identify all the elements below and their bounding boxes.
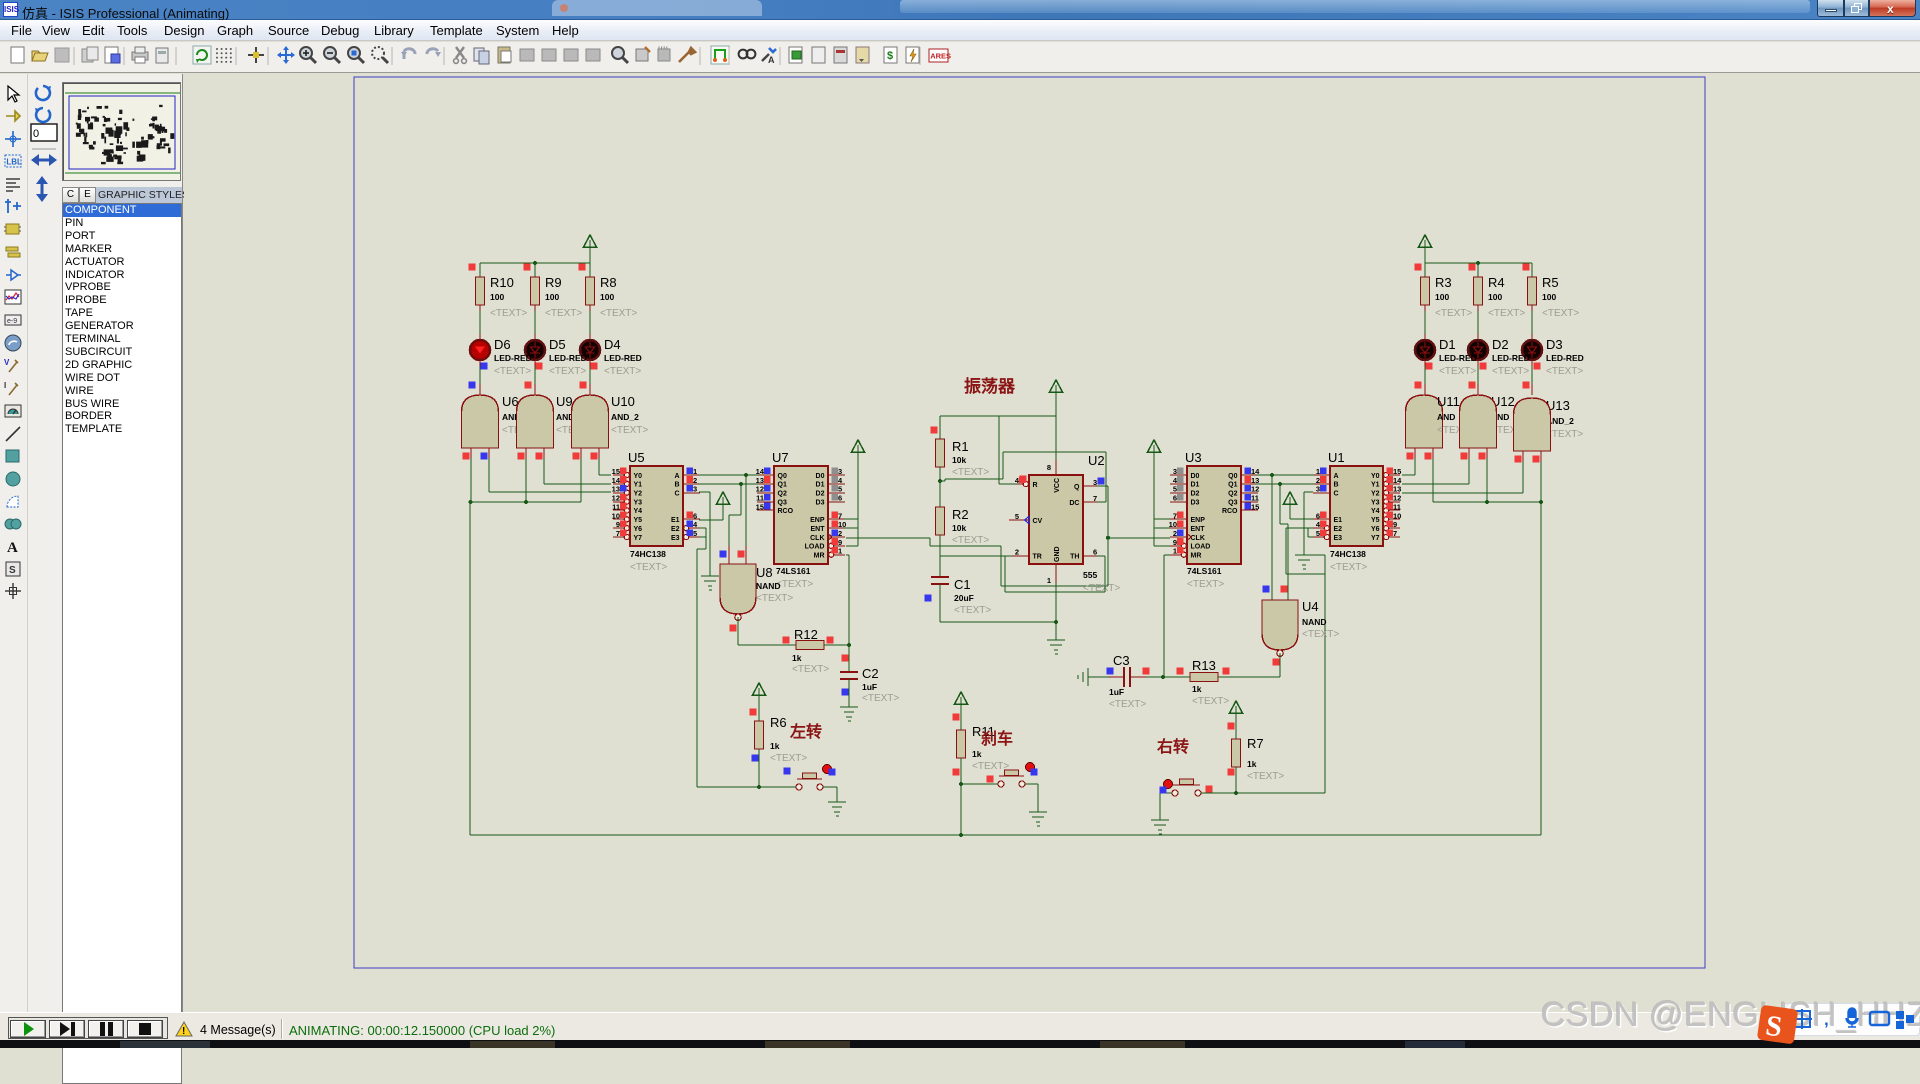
svg-text:E1: E1	[671, 517, 680, 524]
svg-text:C: C	[674, 491, 679, 498]
svg-text:LED-RED: LED-RED	[604, 353, 642, 363]
svg-text:ENT: ENT	[811, 526, 826, 533]
svg-text:15: 15	[1393, 467, 1401, 476]
svg-text:AND_2: AND_2	[611, 412, 639, 422]
svg-text:D1: D1	[1439, 337, 1456, 352]
svg-text:20uF: 20uF	[954, 593, 974, 603]
svg-text:Y2: Y2	[1371, 491, 1380, 498]
svg-text:10k: 10k	[952, 523, 966, 533]
svg-text:C: C	[1334, 491, 1339, 498]
svg-text:9: 9	[1393, 520, 1397, 529]
svg-text:<TEXT>: <TEXT>	[1109, 699, 1146, 710]
svg-text:<TEXT>: <TEXT>	[1192, 696, 1229, 707]
svg-text:6: 6	[1093, 548, 1097, 557]
svg-text:CLK: CLK	[810, 535, 824, 542]
svg-text:VCC: VCC	[1054, 478, 1061, 493]
svg-text:1uF: 1uF	[862, 682, 877, 692]
svg-text:<TEXT>: <TEXT>	[490, 308, 527, 319]
svg-text:R3: R3	[1435, 275, 1452, 290]
svg-text:E3: E3	[671, 535, 680, 542]
svg-text:<TEXT>: <TEXT>	[1330, 562, 1367, 573]
svg-text:10k: 10k	[952, 455, 966, 465]
svg-text:11: 11	[1393, 502, 1401, 511]
svg-text:100: 100	[1488, 292, 1502, 302]
svg-text:8: 8	[1047, 463, 1051, 472]
svg-text:100: 100	[1435, 292, 1449, 302]
svg-text:振荡器: 振荡器	[964, 376, 1016, 396]
svg-text:R1: R1	[952, 439, 969, 454]
svg-text:LED-RED: LED-RED	[494, 353, 532, 363]
svg-text:12: 12	[756, 485, 764, 494]
svg-text:R8: R8	[600, 275, 617, 290]
svg-text:Y7: Y7	[1371, 535, 1380, 542]
svg-text:U4: U4	[1302, 599, 1319, 614]
svg-text:Y1: Y1	[634, 482, 643, 489]
svg-text:Q1: Q1	[1228, 482, 1237, 489]
svg-text:12: 12	[1393, 494, 1401, 503]
svg-text:RCO: RCO	[1222, 508, 1238, 515]
svg-text:<TEXT>: <TEXT>	[1302, 629, 1339, 640]
svg-text:<TEXT>: <TEXT>	[954, 605, 991, 616]
svg-text:Y5: Y5	[634, 517, 643, 524]
svg-text:右转: 右转	[1157, 737, 1189, 756]
svg-text:9: 9	[838, 538, 842, 547]
svg-text:5: 5	[693, 529, 697, 538]
svg-text:LOAD: LOAD	[1191, 544, 1211, 551]
svg-text:3: 3	[1173, 467, 1177, 476]
svg-text:11: 11	[612, 502, 620, 511]
svg-text:R9: R9	[545, 275, 562, 290]
svg-text:Q0: Q0	[778, 473, 787, 480]
svg-text:MR: MR	[1191, 553, 1202, 560]
svg-text:100: 100	[490, 292, 504, 302]
svg-text:Y5: Y5	[1371, 517, 1380, 524]
svg-text:3: 3	[838, 467, 842, 476]
svg-text:1: 1	[1173, 547, 1177, 556]
svg-text:<TEXT>: <TEXT>	[1546, 429, 1583, 440]
svg-text:74HC138: 74HC138	[630, 549, 666, 559]
svg-text:<TEXT>: <TEXT>	[604, 366, 641, 377]
svg-text:AND: AND	[1437, 412, 1455, 422]
svg-text:Q3: Q3	[1228, 499, 1237, 506]
svg-text:R13: R13	[1192, 658, 1216, 673]
svg-text:7: 7	[838, 511, 842, 520]
svg-text:100: 100	[600, 292, 614, 302]
svg-text:Y3: Y3	[634, 499, 643, 506]
svg-text:10: 10	[612, 511, 620, 520]
svg-text:5: 5	[1015, 512, 1019, 521]
svg-text:<TEXT>: <TEXT>	[1488, 308, 1525, 319]
svg-text:9: 9	[1173, 538, 1177, 547]
svg-text:D3: D3	[1546, 337, 1563, 352]
svg-text:<TEXT>: <TEXT>	[494, 366, 531, 377]
svg-text:74LS161: 74LS161	[1187, 566, 1222, 576]
svg-text:D4: D4	[604, 337, 621, 352]
svg-text:1k: 1k	[792, 653, 802, 663]
svg-text:RCO: RCO	[778, 508, 794, 515]
svg-text:D1: D1	[816, 482, 825, 489]
svg-text:ENP: ENP	[1191, 517, 1206, 524]
svg-text:U3: U3	[1185, 450, 1202, 465]
svg-text:1: 1	[693, 467, 697, 476]
svg-text:<TEXT>: <TEXT>	[1187, 579, 1224, 590]
svg-text:<TEXT>: <TEXT>	[776, 579, 813, 590]
svg-text:刹车: 刹车	[981, 729, 1013, 748]
svg-text:R4: R4	[1488, 275, 1505, 290]
svg-text:V: V	[4, 358, 10, 367]
svg-text:LED-RED: LED-RED	[1546, 353, 1584, 363]
svg-text:7: 7	[1393, 529, 1397, 538]
svg-text:12: 12	[612, 494, 620, 503]
svg-text:9: 9	[616, 520, 620, 529]
svg-text:6: 6	[1316, 511, 1320, 520]
svg-text:<TEXT>: <TEXT>	[611, 425, 648, 436]
svg-text:<TEXT>: <TEXT>	[545, 308, 582, 319]
svg-text:!: !	[182, 1026, 185, 1037]
svg-text:<TEXT>: <TEXT>	[1247, 771, 1284, 782]
svg-text:Y0: Y0	[1371, 473, 1380, 480]
svg-text:Y1: Y1	[1371, 482, 1380, 489]
svg-text:MR: MR	[814, 553, 825, 560]
svg-text:E2: E2	[671, 526, 680, 533]
svg-text:Q2: Q2	[1228, 491, 1237, 498]
svg-text:D1: D1	[1191, 482, 1200, 489]
svg-text:11: 11	[756, 494, 764, 503]
svg-text:B: B	[674, 482, 679, 489]
svg-text:E3: E3	[1334, 535, 1343, 542]
svg-text:U7: U7	[772, 450, 789, 465]
svg-text:ENT: ENT	[1191, 526, 1206, 533]
svg-text:C2: C2	[862, 666, 879, 681]
svg-text:U10: U10	[611, 394, 635, 409]
svg-text:100: 100	[1542, 292, 1556, 302]
svg-text:CV: CV	[1033, 518, 1043, 525]
svg-text:D0: D0	[1191, 473, 1200, 480]
svg-text:S: S	[9, 565, 16, 576]
svg-text:R2: R2	[952, 507, 969, 522]
svg-text:GND: GND	[1054, 546, 1061, 562]
svg-text:D2: D2	[816, 491, 825, 498]
svg-text:U6: U6	[502, 394, 519, 409]
svg-text:R12: R12	[794, 627, 818, 642]
svg-text:I: I	[4, 381, 6, 390]
svg-text:C1: C1	[954, 577, 971, 592]
svg-text:LED-RED: LED-RED	[549, 353, 587, 363]
svg-text:<TEXT>: <TEXT>	[630, 562, 667, 573]
svg-text:LOAD: LOAD	[805, 544, 825, 551]
svg-text:3: 3	[693, 485, 697, 494]
svg-text:D3: D3	[816, 499, 825, 506]
svg-text:LBL: LBL	[6, 158, 22, 167]
svg-text:Y7: Y7	[634, 535, 643, 542]
svg-text:15: 15	[1251, 502, 1259, 511]
svg-text:<TEXT>: <TEXT>	[792, 664, 829, 675]
svg-text:5: 5	[838, 485, 842, 494]
svg-text:<TEXT>: <TEXT>	[972, 761, 1009, 772]
svg-text:12: 12	[1251, 485, 1259, 494]
svg-text:R10: R10	[490, 275, 514, 290]
svg-text:Y4: Y4	[634, 508, 643, 515]
svg-text:U1: U1	[1328, 450, 1345, 465]
svg-text:E2: E2	[1334, 526, 1343, 533]
svg-text:C3: C3	[1113, 653, 1130, 668]
svg-text:1: 1	[1316, 467, 1320, 476]
svg-text:15: 15	[612, 467, 620, 476]
svg-text:NAND: NAND	[756, 581, 781, 591]
svg-text:<TEXT>: <TEXT>	[549, 366, 586, 377]
svg-text:<TEXT>: <TEXT>	[1546, 366, 1583, 377]
svg-text:1: 1	[1047, 576, 1051, 585]
svg-text:R6: R6	[770, 715, 787, 730]
svg-text:A: A	[674, 473, 679, 480]
svg-text:DC: DC	[1069, 500, 1079, 507]
svg-text:LED-RED: LED-RED	[1439, 353, 1477, 363]
svg-text:Q: Q	[1074, 484, 1080, 491]
svg-text:TR: TR	[1033, 553, 1042, 560]
svg-text:<TEXT>: <TEXT>	[1435, 308, 1472, 319]
svg-text:<TEXT>: <TEXT>	[952, 535, 989, 546]
svg-text:Q2: Q2	[778, 491, 787, 498]
svg-text:e-9: e-9	[7, 318, 17, 325]
svg-text:Q3: Q3	[778, 499, 787, 506]
svg-text:3: 3	[1316, 485, 1320, 494]
svg-text:U11: U11	[1437, 394, 1460, 409]
svg-text:2: 2	[1015, 548, 1019, 557]
svg-text:D5: D5	[549, 337, 566, 352]
svg-text:Y2: Y2	[634, 491, 643, 498]
svg-text:2: 2	[1316, 476, 1320, 485]
svg-text:5: 5	[1316, 529, 1320, 538]
svg-text:<TEXT>: <TEXT>	[1542, 308, 1579, 319]
svg-text:2: 2	[693, 476, 697, 485]
svg-text:B: B	[1334, 482, 1339, 489]
svg-text:D6: D6	[494, 337, 511, 352]
svg-text:D2: D2	[1191, 491, 1200, 498]
svg-text:100: 100	[545, 292, 559, 302]
svg-text:Y0: Y0	[634, 473, 643, 480]
svg-text:74HC138: 74HC138	[1330, 549, 1366, 559]
svg-text:2: 2	[1173, 529, 1177, 538]
svg-text:TH: TH	[1070, 553, 1079, 560]
svg-text:0: 0	[33, 128, 39, 140]
svg-text:13: 13	[1393, 485, 1401, 494]
svg-text:<TEXT>: <TEXT>	[862, 693, 899, 704]
svg-text:5: 5	[1173, 485, 1177, 494]
svg-text:NAND: NAND	[1302, 617, 1327, 627]
svg-text:10: 10	[1393, 511, 1401, 520]
svg-text:A: A	[1334, 473, 1339, 480]
svg-text:U8: U8	[756, 565, 773, 580]
svg-text:74LS161: 74LS161	[776, 566, 811, 576]
svg-text:$: $	[887, 50, 893, 62]
svg-text:R5: R5	[1542, 275, 1559, 290]
svg-text:Y6: Y6	[634, 526, 643, 533]
svg-text:Y4: Y4	[1371, 508, 1380, 515]
svg-text:7: 7	[1173, 511, 1177, 520]
svg-text:<TEXT>: <TEXT>	[1492, 366, 1529, 377]
svg-text:R: R	[1033, 482, 1038, 489]
svg-text:Y6: Y6	[1371, 526, 1380, 533]
svg-text:1uF: 1uF	[1109, 687, 1124, 697]
svg-text:<TEXT>: <TEXT>	[756, 593, 793, 604]
svg-text:LED-RED: LED-RED	[1492, 353, 1530, 363]
svg-text:R7: R7	[1247, 736, 1264, 751]
svg-text:CLK: CLK	[1191, 535, 1205, 542]
svg-text:3: 3	[1093, 478, 1097, 487]
svg-text:Q0: Q0	[1228, 473, 1237, 480]
svg-text:11: 11	[1251, 494, 1259, 503]
svg-text:14: 14	[1393, 476, 1402, 485]
svg-text:7: 7	[616, 529, 620, 538]
svg-text:13: 13	[612, 485, 620, 494]
svg-text:A: A	[7, 540, 18, 556]
svg-text:555: 555	[1083, 570, 1097, 580]
svg-text:U5: U5	[628, 450, 645, 465]
svg-text:<TEXT>: <TEXT>	[600, 308, 637, 319]
svg-text:14: 14	[612, 476, 621, 485]
svg-text:6: 6	[1173, 494, 1177, 503]
svg-text:<TEXT>: <TEXT>	[770, 753, 807, 764]
svg-text:A: A	[768, 55, 775, 65]
svg-text:,: ,	[1824, 1010, 1829, 1029]
svg-text:<TEXT>: <TEXT>	[1439, 366, 1476, 377]
svg-text:左转: 左转	[789, 722, 822, 741]
svg-text:2: 2	[838, 529, 842, 538]
svg-text:D0: D0	[816, 473, 825, 480]
svg-text:<TEXT>: <TEXT>	[952, 467, 989, 478]
svg-text:U2: U2	[1088, 453, 1105, 468]
svg-text:15: 15	[756, 502, 764, 511]
svg-text:1k: 1k	[770, 741, 780, 751]
svg-text:E1: E1	[1334, 517, 1343, 524]
svg-text:D2: D2	[1492, 337, 1509, 352]
svg-text:Y3: Y3	[1371, 499, 1380, 506]
svg-text:6: 6	[693, 511, 697, 520]
svg-text:U9: U9	[556, 394, 573, 409]
svg-text:1: 1	[838, 547, 842, 556]
svg-text:1k: 1k	[972, 749, 982, 759]
svg-text:ENP: ENP	[810, 517, 825, 524]
svg-text:7: 7	[1093, 494, 1097, 503]
svg-text:6: 6	[838, 494, 842, 503]
svg-text:1k: 1k	[1247, 759, 1257, 769]
svg-text:1k: 1k	[1192, 684, 1202, 694]
svg-text:ARES: ARES	[930, 52, 951, 61]
svg-text:D3: D3	[1191, 499, 1200, 506]
svg-text:Q1: Q1	[778, 482, 787, 489]
